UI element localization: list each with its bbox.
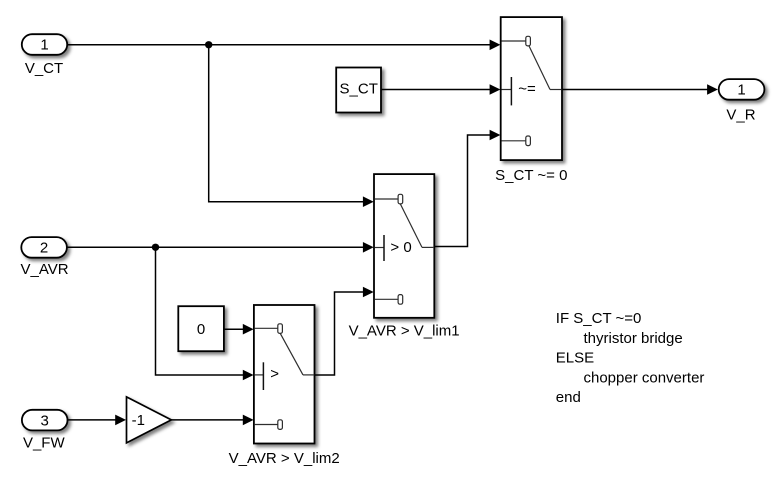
wire V_lim1 out to switch in3 bbox=[434, 135, 490, 247]
switch S_CT ~= 0 bbox=[501, 17, 562, 160]
svg-text:S_CT: S_CT bbox=[340, 81, 378, 98]
wire V_AVR branch to V_lim2 in2 bbox=[156, 247, 244, 375]
outport 1 V_R bbox=[719, 79, 765, 100]
wire V_CT to switch in1 bbox=[67, 44, 490, 46]
wire gain to V_lim2 in3 bbox=[171, 419, 243, 421]
svg-text:thyristor bridge: thyristor bridge bbox=[584, 330, 683, 347]
inport 2 V_AVR bbox=[21, 237, 67, 258]
svg-text:1: 1 bbox=[737, 82, 745, 99]
svg-text:2: 2 bbox=[40, 240, 48, 257]
wire constant 0 to V_lim2 in1 bbox=[224, 328, 244, 330]
svg-text:3: 3 bbox=[41, 412, 49, 429]
node junction on V_CT line bbox=[205, 41, 212, 48]
svg-text:~=: ~= bbox=[518, 81, 536, 98]
wire S_CT to switch in2 bbox=[381, 89, 490, 91]
constant 0 bbox=[178, 306, 224, 351]
svg-text:V_CT: V_CT bbox=[25, 60, 63, 77]
svg-text:V_AVR > V_lim2: V_AVR > V_lim2 bbox=[229, 450, 340, 467]
svg-text:V_FW: V_FW bbox=[23, 435, 66, 452]
svg-text:IF S_CT ~=0: IF S_CT ~=0 bbox=[556, 310, 642, 327]
switch V_AVR > V_lim2 bbox=[254, 305, 315, 444]
svg-text:V_AVR: V_AVR bbox=[21, 261, 69, 278]
wire V_lim2 out to V_lim1 in3 bbox=[315, 292, 364, 375]
svg-text:> 0: > 0 bbox=[390, 239, 411, 256]
switch S_CT internals bbox=[502, 36, 562, 145]
wire V_CT branch to V_lim1 in1 bbox=[209, 45, 364, 202]
svg-text:end: end bbox=[556, 389, 581, 406]
svg-text:>: > bbox=[270, 366, 279, 383]
constant S_CT bbox=[336, 68, 381, 113]
svg-text:0: 0 bbox=[197, 321, 205, 338]
switch V_lim1 internals bbox=[375, 194, 434, 304]
switch V_lim2 internals bbox=[255, 324, 315, 430]
svg-text:V_R: V_R bbox=[726, 107, 755, 124]
svg-text:chopper converter: chopper converter bbox=[584, 369, 705, 386]
svg-text:-1: -1 bbox=[132, 412, 145, 429]
switch V_AVR > V_lim1 bbox=[374, 174, 434, 318]
gain -1 bbox=[127, 397, 172, 443]
wire switch out to V_R bbox=[562, 89, 708, 91]
svg-text:1: 1 bbox=[40, 37, 48, 54]
svg-text:S_CT ~= 0: S_CT ~= 0 bbox=[495, 167, 567, 184]
wire V_FW to gain bbox=[68, 419, 116, 421]
wire V_AVR to V_lim1 in2 bbox=[67, 246, 363, 248]
svg-text:ELSE: ELSE bbox=[556, 350, 594, 367]
annotation IF text bbox=[556, 310, 705, 406]
inport 1 V_CT bbox=[22, 34, 67, 55]
svg-text:V_AVR > V_lim1: V_AVR > V_lim1 bbox=[349, 323, 460, 340]
inport 3 V_FW bbox=[22, 410, 68, 431]
node junction on V_AVR line bbox=[152, 244, 159, 251]
